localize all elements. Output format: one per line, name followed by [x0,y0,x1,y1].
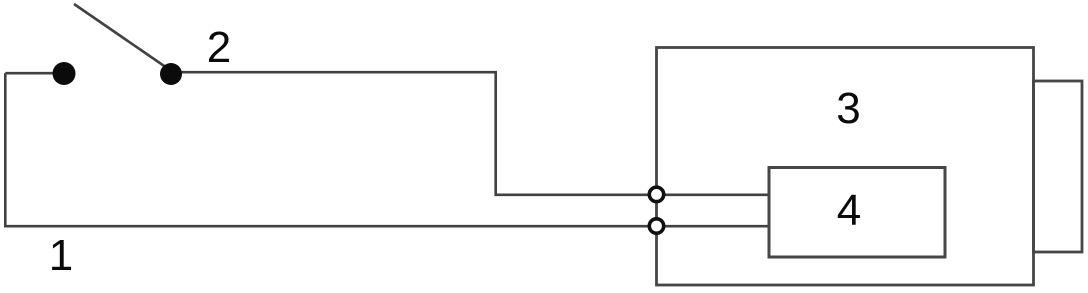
svg-text:3: 3 [836,84,860,133]
svg-text:1: 1 [49,231,73,280]
svg-text:4: 4 [837,186,861,235]
svg-text:2: 2 [207,23,231,72]
